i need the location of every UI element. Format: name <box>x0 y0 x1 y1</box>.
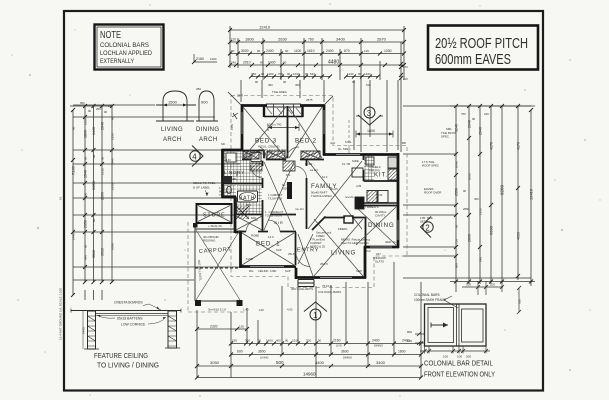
svg-text:Spec73 GED. CeilNG: Spec73 GED. CeilNG <box>341 241 370 245</box>
svg-text:1100: 1100 <box>294 49 301 53</box>
svg-text:1440: 1440 <box>111 158 115 165</box>
svg-text:4.03: 4.03 <box>287 308 293 312</box>
svg-text:1510: 1510 <box>101 168 105 175</box>
bed1 east wall <box>295 232 297 267</box>
top dim labels <box>231 25 408 88</box>
svg-text:mo.LN: mo.LN <box>295 207 304 211</box>
svg-text:16.4 NAT. GROUND LVL SCALE 1: 16.4 NAT. GROUND LVL SCALE 1:100 <box>59 288 63 340</box>
dining cross <box>356 207 396 245</box>
svg-text:65x18 BATTENS: 65x18 BATTENS <box>117 317 143 321</box>
svg-text:700: 700 <box>306 339 311 343</box>
svg-text:450: 450 <box>268 83 273 87</box>
living east wall <box>364 246 367 279</box>
colonial bar caption <box>424 361 495 379</box>
svg-text:500: 500 <box>276 360 284 365</box>
interior walls <box>222 106 398 267</box>
bed2/bed3 divider <box>287 106 289 160</box>
svg-text:10.4: 10.4 <box>322 175 328 179</box>
bed1 cross <box>242 233 294 265</box>
svg-text:14960: 14960 <box>303 372 316 377</box>
svg-text:25LP: 25LP <box>288 252 295 256</box>
svg-text:1610: 1610 <box>307 49 315 53</box>
right sash <box>462 309 484 342</box>
svg-text:d./B: d./B <box>356 184 361 188</box>
svg-text:2500: 2500 <box>84 118 88 125</box>
svg-text:9.1: 9.1 <box>59 196 63 200</box>
washing machine <box>226 153 236 162</box>
svg-text:TILE AREA: TILE AREA <box>272 90 287 94</box>
svg-text:LOW CORNICE: LOW CORNICE <box>121 323 146 327</box>
feature ceiling texts <box>82 301 167 335</box>
svg-text:2320: 2320 <box>210 325 218 329</box>
laundry tub <box>251 153 261 162</box>
svg-text:SD: SD <box>221 142 225 146</box>
svg-text:90o: 90o <box>249 269 254 273</box>
top dimension block <box>230 26 404 152</box>
svg-text:750: 750 <box>461 112 466 116</box>
svg-text:140: 140 <box>226 158 231 162</box>
hall duct dark wall <box>287 182 292 199</box>
svg-text:TOILET/BSN: TOILET/BSN <box>265 214 282 218</box>
svg-text:1.40: 1.40 <box>243 308 249 312</box>
svg-text:90: 90 <box>104 110 108 114</box>
witness horizontals to plan right <box>403 106 531 278</box>
svg-text:90: 90 <box>283 80 287 84</box>
top-left corner diagonal (eaves) <box>228 92 241 105</box>
right dim ticks <box>454 104 533 284</box>
robe bed3 <box>242 150 264 160</box>
svg-text:LIVING: LIVING <box>331 250 356 257</box>
kitchen fixtures <box>352 157 398 209</box>
svg-text:GED. CLG: GED. CLG <box>385 240 398 244</box>
svg-text:200: 200 <box>466 355 471 359</box>
svg-text:3400: 3400 <box>376 360 386 365</box>
svg-text:2640: 2640 <box>468 120 472 128</box>
svg-text:STORE: STORE <box>203 213 225 219</box>
svg-text:2870: 2870 <box>377 37 387 42</box>
svg-text:90: 90 <box>88 109 92 113</box>
svg-text:90: 90 <box>358 72 362 76</box>
svg-text:HERO & 25: HERO & 25 <box>310 245 325 249</box>
svg-text:90: 90 <box>261 72 265 76</box>
svg-text:DINING: DINING <box>343 356 352 360</box>
below-dining window wall <box>364 246 399 249</box>
svg-text:3400: 3400 <box>336 37 346 42</box>
svg-text:90: 90 <box>92 218 96 222</box>
bottom dim ticks <box>195 327 423 380</box>
svg-text:100: 100 <box>443 355 448 359</box>
svg-text:600: 600 <box>251 216 256 220</box>
svg-text:8200: 8200 <box>500 184 505 195</box>
left dim ticks <box>71 104 114 297</box>
family/dining divider <box>355 205 398 207</box>
svg-text:2550: 2550 <box>455 188 459 196</box>
svg-text:800: 800 <box>407 330 412 334</box>
section marker 4 <box>190 146 203 167</box>
svg-text:270: 270 <box>403 65 408 69</box>
svg-text:2550: 2550 <box>111 183 115 190</box>
svg-text:90: 90 <box>455 224 459 228</box>
laundry/bath divider <box>222 183 262 185</box>
svg-text:90: 90 <box>257 49 261 53</box>
family west wall <box>306 160 308 229</box>
svg-text:750: 750 <box>219 193 224 197</box>
svg-text:100: 100 <box>457 355 462 359</box>
window dims below <box>420 346 490 354</box>
svg-text:300 GUGLIARI’S: 300 GUGLIARI’S <box>291 287 313 291</box>
svg-text:2400: 2400 <box>326 49 334 53</box>
svg-text:1800: 1800 <box>245 37 255 42</box>
svg-text:1440: 1440 <box>92 127 96 135</box>
svg-text:90: 90 <box>84 244 88 248</box>
svg-text:2160: 2160 <box>333 339 341 343</box>
svg-text:750: 750 <box>251 72 256 76</box>
bed block left wall <box>241 105 244 151</box>
svg-text:6030: 6030 <box>489 225 494 235</box>
svg-text:COLONIAL BAR DETAIL: COLONIAL BAR DETAIL <box>424 361 493 368</box>
svg-text:90: 90 <box>287 72 291 76</box>
svg-text:90: 90 <box>305 72 309 76</box>
svg-text:3050: 3050 <box>210 360 220 365</box>
colonial bar labels <box>414 293 446 302</box>
bed2 cross <box>289 107 322 158</box>
dining arch <box>196 91 218 121</box>
svg-text:1520: 1520 <box>292 339 299 343</box>
svg-text:1400: 1400 <box>266 339 273 343</box>
left dimension block <box>70 105 240 300</box>
svg-text:90: 90 <box>84 156 88 160</box>
beam under ceiling <box>96 313 168 315</box>
kitchen bench wall <box>363 155 365 181</box>
svg-text:TIMBER’S: TIMBER’S <box>365 205 379 209</box>
window outer frame <box>425 304 487 346</box>
1800 dim over family window <box>356 129 393 138</box>
linen <box>283 161 295 171</box>
svg-text:450: 450 <box>295 83 300 87</box>
svg-text:90: 90 <box>101 156 105 160</box>
svg-text:2000: 2000 <box>468 173 472 180</box>
svg-text:90: 90 <box>463 189 467 193</box>
section marker 3 <box>356 107 383 125</box>
door swing arcs <box>246 147 310 267</box>
svg-text:SLIP: SLIP <box>276 248 282 252</box>
dim 2160 beside note box <box>192 54 403 80</box>
living arch dim <box>161 100 187 144</box>
svg-text:ARCH: ARCH <box>199 137 218 143</box>
svg-text:RIDGING: RIDGING <box>203 239 216 243</box>
svg-text:250: 250 <box>96 107 101 111</box>
house bottom wall <box>240 265 298 268</box>
entry porch steps <box>298 280 314 287</box>
svg-text:BED. 1: BED. 1 <box>256 241 280 248</box>
living cross <box>314 219 363 276</box>
svg-text:D.L: D.L <box>286 173 291 177</box>
hall west wall <box>262 160 264 232</box>
svg-text:1160: 1160 <box>210 57 217 61</box>
svg-text:90: 90 <box>472 117 476 121</box>
svg-text:2690: 2690 <box>111 243 115 250</box>
svg-text:1: 1 <box>313 311 318 320</box>
svg-text:2x2: 2x2 <box>366 249 371 253</box>
svg-text:CEILING: CEILING <box>258 269 268 273</box>
room labels <box>199 138 395 257</box>
svg-text:2400: 2400 <box>372 339 380 343</box>
svg-text:1800: 1800 <box>84 130 88 138</box>
svg-text:COLONIAL BARS: COLONIAL BARS <box>414 293 440 297</box>
opening arrow left sash <box>431 324 448 326</box>
svg-text:2160: 2160 <box>196 57 204 61</box>
svg-text:900: 900 <box>235 171 239 176</box>
svg-text:1040: 1040 <box>293 72 300 76</box>
svg-text:DINING: DINING <box>196 127 219 133</box>
laundry west step <box>222 149 243 152</box>
svg-text:3010: 3010 <box>101 248 105 256</box>
left dim labels (rotated) <box>71 101 115 260</box>
dim line total 12410 <box>230 29 404 31</box>
svg-text:CRESTA BOARDS: CRESTA BOARDS <box>114 301 143 305</box>
witness verticals top <box>230 26 404 152</box>
svg-text:FEATURE CEILING: FEATURE CEILING <box>94 353 148 360</box>
eaves overhang dashed outline <box>188 96 407 313</box>
svg-text:90: 90 <box>231 49 235 53</box>
bed block top wall <box>241 104 324 107</box>
svg-text:2690: 2690 <box>468 234 472 242</box>
svg-text:240: 240 <box>479 257 483 262</box>
store room <box>197 204 232 223</box>
svg-text:90: 90 <box>84 192 88 196</box>
svg-text:840: 840 <box>84 255 88 260</box>
svg-text:SLIP: SLIP <box>285 269 291 273</box>
svg-text:KLNB: KLNB <box>246 257 253 261</box>
svg-text:KL YB: KL YB <box>342 162 350 166</box>
svg-text:90: 90 <box>255 80 259 84</box>
leader from label <box>444 300 458 308</box>
left post <box>88 311 96 349</box>
witness to plan <box>241 80 398 152</box>
svg-text:750: 750 <box>455 239 459 244</box>
svg-text:25 R: 25 R <box>237 94 243 98</box>
svg-text:90: 90 <box>285 339 289 343</box>
bed3 cross <box>243 107 286 158</box>
svg-text:110: 110 <box>364 49 369 53</box>
svg-text:150: 150 <box>232 339 237 343</box>
svg-text:NOTE: NOTE <box>100 30 121 41</box>
svg-text:2: 2 <box>425 224 430 233</box>
svg-text:1030: 1030 <box>384 49 392 53</box>
svg-text:FIREPL: FIREPL <box>338 227 348 231</box>
living arch <box>156 91 196 121</box>
room crosses <box>236 107 396 276</box>
svg-text:2400: 2400 <box>266 49 274 53</box>
NOTE box <box>95 25 164 70</box>
carport posts <box>195 300 201 306</box>
east wall <box>397 153 400 248</box>
svg-text:1350: 1350 <box>479 208 483 215</box>
svg-text:950: 950 <box>80 101 85 105</box>
svg-text:90: 90 <box>258 339 262 343</box>
svg-text:T/LGHTNG: T/LGHTNG <box>268 197 282 201</box>
svg-text:SIDE: SIDE <box>352 159 359 163</box>
svg-text:2630: 2630 <box>278 37 288 42</box>
svg-text:600mm EAVES: 600mm EAVES <box>435 51 511 68</box>
feature ceiling detail <box>71 309 181 350</box>
svg-text:90x45: 90x45 <box>330 187 338 191</box>
hall diagonals <box>236 162 313 276</box>
svg-text:CAVITY: CAVITY <box>375 214 385 218</box>
bath/hall divider <box>236 214 296 216</box>
svg-text:1440: 1440 <box>72 233 76 240</box>
svg-text:830: 830 <box>518 299 522 304</box>
svg-text:75.10 B: 75.10 B <box>322 284 332 288</box>
svg-text:1200 x 740: 1200 x 740 <box>267 123 282 127</box>
svg-text:JnO: JnO <box>330 141 336 145</box>
hall floor / bed1 top <box>240 231 296 233</box>
svg-text:1350: 1350 <box>230 123 234 130</box>
svg-text:ROOF OVER: ROOF OVER <box>424 191 441 195</box>
bay window <box>264 104 303 117</box>
svg-text:1140: 1140 <box>347 72 354 76</box>
svg-text:4: 4 <box>192 153 197 162</box>
svg-text:900: 900 <box>455 263 459 268</box>
svg-text:1800: 1800 <box>398 350 406 354</box>
svg-text:100mm SASH FRAME: 100mm SASH FRAME <box>414 298 446 302</box>
window left side dim <box>407 330 425 345</box>
living north wall <box>325 217 345 219</box>
svg-text:20½ ROOF PITCH: 20½ ROOF PITCH <box>435 35 528 52</box>
svg-text:2900: 2900 <box>101 192 105 200</box>
wet area tile hatching <box>224 152 262 183</box>
svg-text:THATCH+SPEC: THATCH+SPEC <box>311 194 332 198</box>
entry diagonal <box>312 217 326 231</box>
svg-text:3010: 3010 <box>92 250 96 258</box>
svg-text:510: 510 <box>366 83 371 87</box>
svg-text:BD: BD <box>402 141 406 145</box>
svg-text:BED 2: BED 2 <box>295 138 317 145</box>
svg-text:2350: 2350 <box>84 220 88 228</box>
svg-text:SML: SML <box>231 177 237 181</box>
right dim labels (rotated) <box>455 112 534 268</box>
svg-text:12410: 12410 <box>259 25 271 30</box>
svg-text:90: 90 <box>318 339 322 343</box>
svg-text:2040: 2040 <box>479 127 483 135</box>
svg-text:110: 110 <box>231 38 236 42</box>
entry step down <box>295 266 298 280</box>
top dim tick marks <box>228 28 406 79</box>
sat dish mark <box>232 113 238 119</box>
right post <box>168 311 177 348</box>
svg-text:90: 90 <box>92 154 96 158</box>
svg-text:ROBE: ROBE <box>255 162 263 166</box>
svg-text:FIXED: FIXED <box>316 234 325 238</box>
dining/living <box>352 217 366 247</box>
left sash <box>428 308 454 343</box>
vertical dim left of post <box>82 311 84 349</box>
bath west wall <box>234 196 237 233</box>
dim line row2 <box>230 41 404 43</box>
svg-text:900: 900 <box>201 100 208 105</box>
svg-text:SET: SET <box>420 220 426 224</box>
svg-text:ea.LN: ea.LN <box>310 168 317 172</box>
svg-text:3600: 3600 <box>341 350 349 354</box>
svg-text:DINING: DINING <box>368 222 394 229</box>
window right side dim 830 <box>517 286 522 314</box>
svg-text:WC: WC <box>225 190 233 194</box>
section marker 1 <box>304 302 327 320</box>
step to bath west <box>222 196 237 199</box>
svg-text:705: 705 <box>278 72 283 76</box>
svg-text:ROBE: ROBE <box>305 162 313 166</box>
bed1 west wall <box>239 231 242 268</box>
svg-text:450: 450 <box>474 197 479 201</box>
svg-text:400: 400 <box>276 339 281 343</box>
svg-text:903: 903 <box>246 203 251 207</box>
svg-text:1160: 1160 <box>267 72 274 76</box>
svg-text:740: 740 <box>231 61 236 65</box>
svg-text:ROBE: ROBE <box>251 234 259 238</box>
svg-text:4480: 4480 <box>328 60 339 66</box>
svg-text:130: 130 <box>239 325 244 329</box>
svg-text:ROOF SPEC: ROOF SPEC <box>422 164 439 168</box>
svg-text:6.98L: 6.98L <box>270 269 277 273</box>
small dim ticks left of bed3 wall <box>230 123 239 176</box>
door openings (white gaps) <box>246 160 364 267</box>
svg-text:1540: 1540 <box>84 170 88 178</box>
roof pitch box <box>428 26 538 70</box>
svg-text:GIR: GIR <box>274 220 284 225</box>
svg-text:100: 100 <box>407 339 412 343</box>
svg-text:90: 90 <box>260 61 264 65</box>
svg-text:LOCHLAN APPLIED: LOCHLAN APPLIED <box>100 51 153 57</box>
svg-text:rev.LN.: rev.LN. <box>345 195 354 199</box>
svg-text:25/0 5: 25/0 5 <box>320 262 328 266</box>
svg-text:240: 240 <box>484 112 489 116</box>
svg-text:2850: 2850 <box>463 207 470 211</box>
svg-text:300: 300 <box>245 339 250 343</box>
family cross <box>308 161 362 229</box>
window top dims <box>462 281 504 295</box>
wc divider <box>235 198 237 216</box>
mullion <box>457 304 460 346</box>
svg-text:SIDE: SIDE <box>282 187 289 191</box>
svg-text:3m+5/16.3.1.8: 3m+5/16.3.1.8 <box>208 308 226 312</box>
svg-text:6050: 6050 <box>91 180 96 190</box>
svg-text:90: 90 <box>285 49 289 53</box>
svg-text:1350: 1350 <box>111 133 115 140</box>
witness horizontals to plan <box>70 106 240 280</box>
svg-text:870: 870 <box>344 49 350 53</box>
sheet border <box>64 11 543 391</box>
witness verticals bottom <box>197 262 394 378</box>
svg-text:760: 760 <box>308 38 314 42</box>
dim line row5 <box>251 76 378 78</box>
svg-text:3: 3 <box>367 109 372 118</box>
svg-text:2910: 2910 <box>243 61 251 65</box>
svg-text:KIT.: KIT. <box>374 172 388 179</box>
bay dim 1200x740 <box>268 124 299 131</box>
svg-text:100: 100 <box>466 283 471 287</box>
svg-text:4170: 4170 <box>517 142 521 150</box>
svg-text:90: 90 <box>352 80 356 84</box>
ceiling line <box>71 310 181 312</box>
shower X <box>236 206 249 219</box>
svg-text:3600: 3600 <box>258 350 266 354</box>
dim line row4 <box>230 64 404 66</box>
svg-text:FRONT ELEVATION ONLY: FRONT ELEVATION ONLY <box>424 372 495 379</box>
svg-text:4170: 4170 <box>490 142 494 150</box>
svg-text:COLONIAL BARS: COLONIAL BARS <box>318 290 341 294</box>
fireplace in family <box>344 216 353 223</box>
svg-text:F.R: F.R <box>378 193 382 197</box>
